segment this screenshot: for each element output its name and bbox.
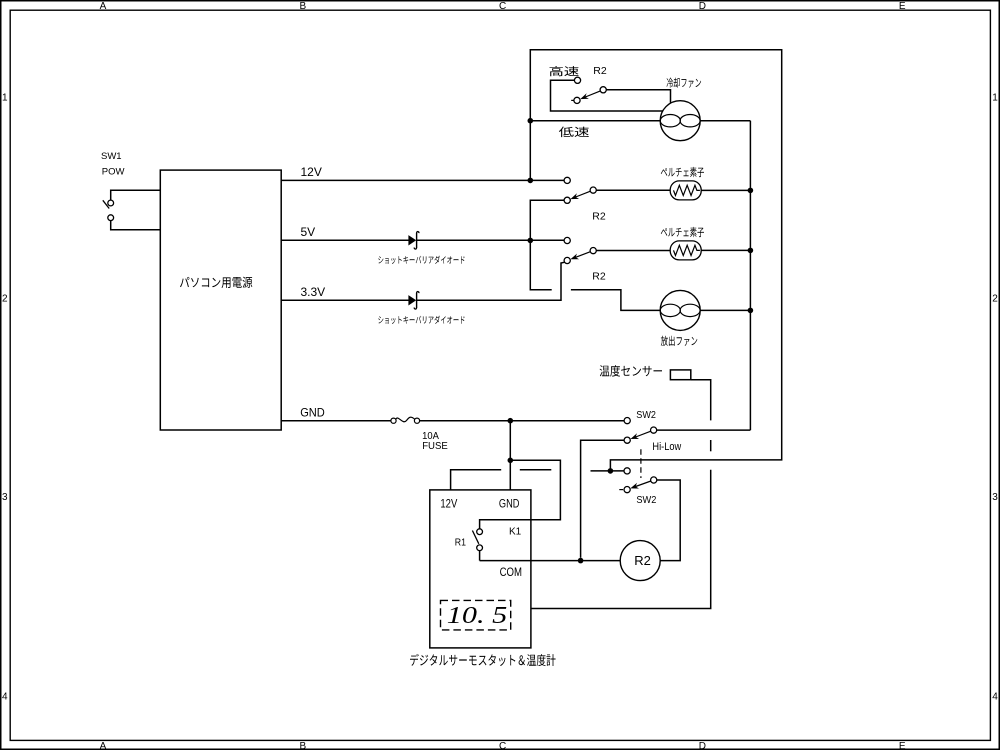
wire SW2-2 pivot to relay R2 (657, 480, 681, 561)
switch R2-1 pivot (590, 187, 596, 193)
svg-text:C: C (499, 741, 506, 750)
wire SW1 top lead (111, 190, 161, 200)
node return/peltier1 (748, 188, 754, 194)
svg-text:D: D (699, 1, 706, 12)
stub at NC contact (571, 99, 574, 101)
switch R2-1 arrow (570, 191, 590, 199)
svg-text:FUSE: FUSE (422, 441, 448, 452)
node 5V / switch wire junction (528, 238, 534, 244)
svg-text:Hi-Low: Hi-Low (652, 441, 681, 453)
svg-text:GND: GND (300, 406, 325, 420)
wire 12V pin left segment (451, 470, 502, 490)
peltier element 1 (670, 181, 701, 200)
switch SW2-1 arrow (630, 431, 650, 439)
wire R2-2 pivot to peltier 2 (596, 250, 670, 252)
svg-text:1: 1 (2, 92, 8, 103)
label ペルチェ素子 (2) (661, 227, 704, 237)
cooling fan 冷却ファン (660, 101, 700, 141)
wire 5V rail right of diode (417, 239, 565, 241)
svg-text:R2: R2 (634, 553, 651, 568)
switch speed contact 高速 (574, 77, 580, 83)
relay contact K1 blade (472, 531, 478, 544)
svg-text:10. 5: 10. 5 (447, 602, 508, 629)
exhaust fan 放出ファン (660, 290, 700, 330)
power supply unit box (160, 170, 281, 430)
svg-text:12V: 12V (301, 165, 322, 179)
svg-text:POW: POW (102, 166, 125, 177)
switch SW1 contact upper (108, 200, 114, 206)
node loop / SW2-2 junction (608, 468, 614, 474)
svg-text:SW2: SW2 (636, 494, 656, 506)
switch SW2-1 pole contact (GND) (624, 418, 630, 424)
temperature sensor 温度センサー (670, 370, 690, 380)
svg-text:C: C (499, 1, 506, 12)
wire fan output to return bus (700, 120, 750, 122)
wire fan low-speed feed (530, 120, 660, 122)
wire COM to relay R2 (480, 560, 621, 562)
wire 12V rail (281, 179, 564, 181)
relay contact K1 lower (477, 545, 483, 551)
wire R2-1 moving contact down to 5V and exhaust-fan feed (530, 200, 564, 289)
wire 3.3V rail left of diode (281, 299, 411, 301)
label デジタルサーモスタット＆温度計 (410, 654, 556, 666)
wire GND rail right of fuse (420, 420, 625, 422)
svg-text:A: A (100, 1, 107, 12)
switch R2-2 throw contact (5V) (564, 237, 570, 243)
label ショットキーバリアダイオード (3.3V) (378, 316, 464, 324)
switch R2-2 moving contact (564, 257, 570, 263)
svg-text:1: 1 (992, 92, 998, 103)
svg-text:A: A (100, 741, 107, 750)
wire peltier 1 to return bus (701, 189, 750, 191)
svg-text:3: 3 (2, 492, 8, 503)
schottky barrier diode D1 (408, 232, 419, 249)
switch speed pivot (600, 87, 606, 93)
switch R2-2 arrow (570, 252, 590, 260)
svg-text:3.3V: 3.3V (301, 285, 326, 299)
wire peltier 2 to return bus (701, 249, 750, 251)
svg-text:5V: 5V (301, 225, 316, 239)
label 温度センサー (600, 365, 662, 377)
svg-text:R2: R2 (592, 211, 606, 223)
wire GND pin (509, 421, 511, 490)
svg-text:R1: R1 (455, 538, 467, 549)
svg-text:3: 3 (992, 492, 998, 503)
switch R2-2 pivot (590, 248, 596, 254)
label 低速 (559, 127, 589, 138)
switch R2-1 throw contact (12V) (564, 177, 570, 183)
switch SW1 contact lower (108, 215, 114, 221)
node GND / thermostat junction (508, 418, 514, 424)
svg-text:12V: 12V (440, 499, 457, 511)
wire K1 feed (480, 460, 561, 529)
label パソコン用電源 (180, 277, 252, 289)
stub at SW2-2 moving contact (619, 489, 623, 491)
wire high-speed contact loop (551, 80, 663, 111)
wire K1 lower to COM (479, 551, 481, 561)
wire 3.3V rail right of diode and riser (417, 262, 565, 300)
label ショットキーバリアダイオード (5V) (378, 256, 464, 264)
svg-text:GND: GND (499, 499, 520, 511)
wire SW1 bottom lead (111, 221, 161, 230)
relay contact K1 upper (477, 529, 483, 535)
switch SW2-1 moving contact (624, 437, 630, 443)
label 高速 (550, 66, 579, 76)
switch SW2-2 pivot (651, 477, 657, 483)
wire GND rail left of fuse (281, 420, 391, 422)
label 冷却ファン (667, 78, 702, 88)
svg-text:R2: R2 (593, 65, 607, 77)
switch speed contact NC (574, 97, 580, 103)
wire 5V rail left of diode (281, 239, 411, 241)
peltier element 2 (670, 241, 701, 260)
fuse 10A (391, 417, 420, 423)
node GND pin / K1 branch (508, 458, 514, 464)
label 放出ファン (661, 336, 698, 346)
wire SW2-1 pivot to return bus (657, 429, 751, 431)
wire exhaust-fan feed right part (571, 290, 660, 311)
svg-text:B: B (299, 1, 306, 12)
wire SW2-2 pole stub (591, 470, 625, 472)
node return/peltier2 (748, 248, 754, 254)
switch R2-1 moving contact (564, 197, 570, 203)
svg-text:SW1: SW1 (101, 151, 122, 162)
switch speed arrow (580, 91, 600, 99)
wire speed-switch pivot to fan (606, 90, 670, 104)
wire R2-1 pivot to peltier 1 (596, 189, 670, 191)
svg-text:K1: K1 (509, 527, 522, 538)
switch SW2-2 arrow (630, 481, 651, 489)
wire return bus (749, 121, 751, 430)
svg-text:E: E (899, 741, 906, 750)
dashed mechanical link SW2 (640, 449, 642, 478)
digital thermostat box (430, 490, 531, 648)
node return/exhaust fan (748, 308, 754, 314)
svg-text:R2: R2 (592, 270, 606, 282)
label ペルチェ素子 (1) (661, 167, 704, 177)
relay coil R2 (620, 541, 660, 581)
schottky barrier diode D2 (408, 292, 419, 309)
wire sensor link middle segment (710, 440, 712, 451)
svg-text:4: 4 (2, 692, 8, 703)
switch SW2-2 moving contact (624, 487, 630, 493)
svg-text:2: 2 (992, 294, 998, 305)
node COM / SW2 junction (578, 558, 584, 564)
wire sensor link lower segment (531, 470, 711, 609)
switch SW1 blade (103, 200, 109, 208)
wire SW2-1 moving contact to COM (581, 440, 625, 558)
wire sensor to thermostat (upper) (691, 380, 711, 421)
node loop / fan feed junction (528, 118, 534, 124)
node 12V / loop junction (528, 178, 534, 184)
svg-text:2: 2 (2, 294, 8, 305)
wire 12V loop (left riser, top, right side down to SW2-2) (530, 50, 781, 471)
switch SW2-2 pole contact (624, 468, 630, 474)
wire 12V pin right segment (520, 469, 552, 471)
svg-text:SW2: SW2 (636, 409, 656, 421)
svg-text:E: E (899, 1, 906, 12)
wire exhaust fan to return bus (700, 309, 750, 311)
switch SW2-1 pivot (651, 427, 657, 433)
svg-text:4: 4 (992, 692, 998, 703)
svg-text:COM: COM (500, 567, 522, 579)
thermostat display (441, 600, 511, 630)
svg-text:D: D (699, 741, 706, 750)
svg-text:B: B (299, 741, 306, 750)
